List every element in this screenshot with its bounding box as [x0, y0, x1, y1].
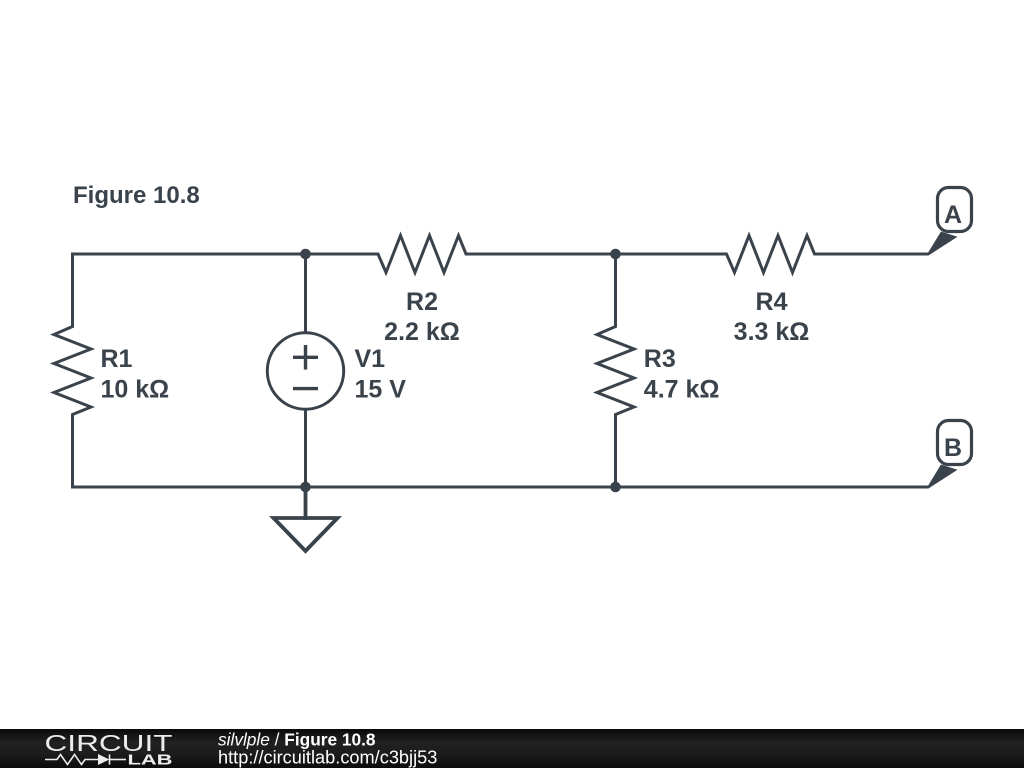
svg-text:10 kΩ: 10 kΩ — [101, 376, 170, 404]
svg-text:Figure 10.8: Figure 10.8 — [73, 182, 200, 209]
svg-text:2.2 kΩ: 2.2 kΩ — [384, 318, 460, 346]
svg-text:3.3 kΩ: 3.3 kΩ — [734, 318, 810, 346]
svg-text:B: B — [944, 434, 962, 462]
svg-text:R4: R4 — [756, 288, 788, 316]
svg-text:http://circuitlab.com/c3bjj53: http://circuitlab.com/c3bjj53 — [218, 748, 437, 768]
svg-text:V1: V1 — [355, 345, 386, 373]
svg-text:R2: R2 — [406, 288, 438, 316]
svg-text:A: A — [944, 201, 962, 229]
svg-text:LAB: LAB — [128, 752, 173, 768]
svg-text:R3: R3 — [644, 345, 676, 373]
svg-text:R1: R1 — [101, 345, 133, 373]
svg-text:15 V: 15 V — [355, 376, 407, 404]
svg-text:silvlple / Figure 10.8: silvlple / Figure 10.8 — [218, 730, 376, 750]
svg-text:4.7 kΩ: 4.7 kΩ — [644, 376, 720, 404]
